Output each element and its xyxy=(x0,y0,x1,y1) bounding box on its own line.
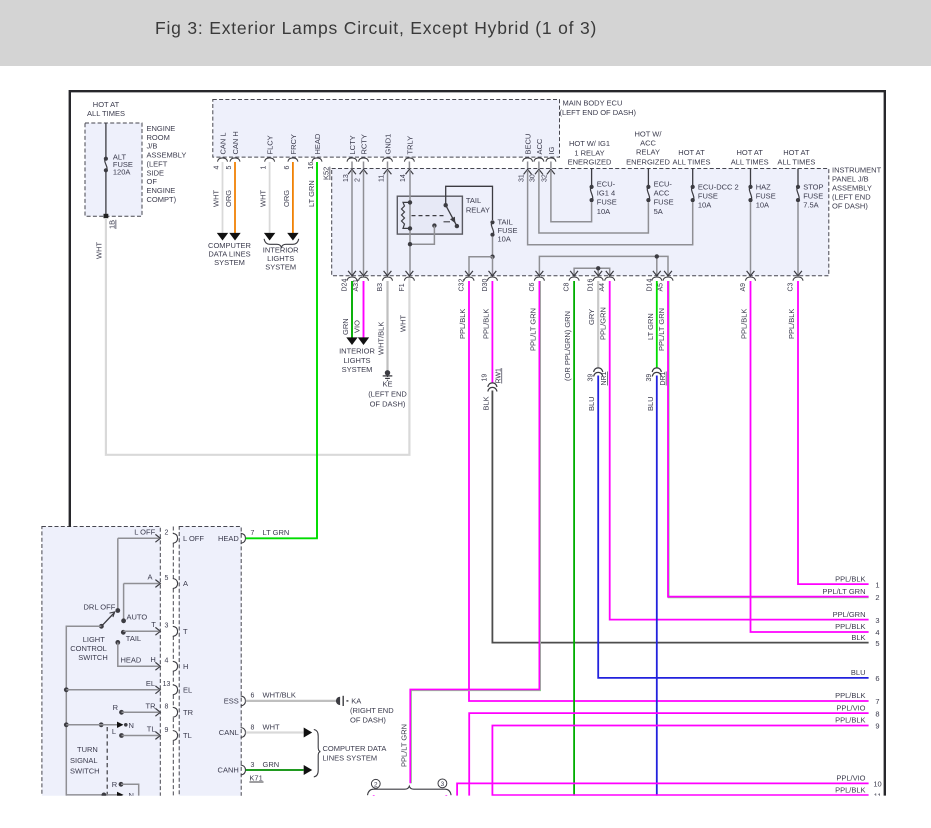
svg-text:H: H xyxy=(150,655,155,664)
svg-text:DR1: DR1 xyxy=(660,371,667,385)
svg-text:ASSEMBLY: ASSEMBLY xyxy=(147,151,187,160)
svg-text:HOT AT: HOT AT xyxy=(736,148,763,157)
svg-text:RELAY: RELAY xyxy=(636,148,660,157)
svg-text:PANEL J/B: PANEL J/B xyxy=(832,175,869,184)
svg-text:D24: D24 xyxy=(342,279,349,292)
svg-text:LIGHTS: LIGHTS xyxy=(343,356,370,365)
svg-text:2: 2 xyxy=(165,530,169,537)
svg-text:WHT/BLK: WHT/BLK xyxy=(377,322,386,355)
svg-text:ALL TIMES: ALL TIMES xyxy=(777,157,815,166)
svg-text:2: 2 xyxy=(374,781,378,788)
svg-text:FUSE: FUSE xyxy=(756,192,776,201)
svg-text:6: 6 xyxy=(251,693,255,700)
svg-text:SYSTEM: SYSTEM xyxy=(342,365,373,374)
svg-text:F1: F1 xyxy=(399,283,406,291)
svg-text:K52: K52 xyxy=(322,167,331,180)
svg-text:STOP: STOP xyxy=(803,183,823,192)
svg-text:ECU-DCC 2: ECU-DCC 2 xyxy=(698,183,739,192)
svg-text:J/B: J/B xyxy=(147,142,158,151)
svg-text:COMPUTER DATA: COMPUTER DATA xyxy=(323,744,387,753)
svg-text:PPL/BLK: PPL/BLK xyxy=(835,785,865,794)
svg-text:FUSE: FUSE xyxy=(654,198,674,207)
svg-text:3: 3 xyxy=(165,623,169,630)
svg-text:HEAD: HEAD xyxy=(121,656,142,665)
svg-text:WHT: WHT xyxy=(95,242,104,259)
svg-text:RW1: RW1 xyxy=(495,368,502,384)
svg-text:6: 6 xyxy=(875,674,879,683)
svg-text:FUSE: FUSE xyxy=(698,192,718,201)
svg-text:MAIN BODY ECU: MAIN BODY ECU xyxy=(563,98,623,107)
svg-text:19: 19 xyxy=(482,374,489,382)
svg-text:TR: TR xyxy=(183,708,194,717)
svg-text:7: 7 xyxy=(875,697,879,706)
svg-text:SYSTEM: SYSTEM xyxy=(265,263,296,272)
svg-text:LIGHT: LIGHT xyxy=(83,635,106,644)
svg-text:NR1: NR1 xyxy=(601,371,608,385)
svg-text:A: A xyxy=(183,579,188,588)
svg-text:T: T xyxy=(151,620,156,629)
svg-text:RELAY: RELAY xyxy=(466,205,490,214)
svg-text:VIO: VIO xyxy=(353,320,362,333)
svg-text:WHT: WHT xyxy=(263,722,280,731)
svg-text:GRN: GRN xyxy=(341,318,350,335)
svg-text:PPL/GRN: PPL/GRN xyxy=(599,307,608,340)
svg-text:TL: TL xyxy=(147,725,156,734)
svg-text:2: 2 xyxy=(354,178,361,182)
svg-text:OF DASH): OF DASH) xyxy=(370,399,406,408)
svg-text:10A: 10A xyxy=(597,207,610,216)
svg-text:BLK: BLK xyxy=(851,633,865,642)
svg-text:10A: 10A xyxy=(698,201,711,210)
svg-text:HOT AT: HOT AT xyxy=(93,100,120,109)
svg-text:1: 1 xyxy=(875,580,879,589)
svg-text:9: 9 xyxy=(875,722,879,731)
svg-text:1B: 1B xyxy=(108,220,117,229)
svg-text:BECU: BECU xyxy=(524,134,533,155)
svg-text:1: 1 xyxy=(261,166,268,170)
svg-text:10A: 10A xyxy=(756,201,769,210)
svg-text:R: R xyxy=(112,780,118,789)
svg-text:SWITCH: SWITCH xyxy=(78,653,108,662)
svg-text:FRCY: FRCY xyxy=(289,134,298,154)
svg-text:13: 13 xyxy=(163,681,171,688)
svg-text:OF DASH): OF DASH) xyxy=(350,716,386,725)
svg-text:ACC: ACC xyxy=(640,139,656,148)
svg-text:PPL/GRN: PPL/GRN xyxy=(833,610,866,619)
svg-text:FLCY: FLCY xyxy=(266,135,275,154)
svg-text:5: 5 xyxy=(226,166,233,170)
svg-text:ESS: ESS xyxy=(224,697,239,706)
svg-text:TAIL: TAIL xyxy=(126,634,141,643)
svg-text:8: 8 xyxy=(875,709,879,718)
svg-text:KE: KE xyxy=(382,379,392,388)
svg-text:C8: C8 xyxy=(564,282,571,291)
svg-text:HOT W/: HOT W/ xyxy=(635,129,663,138)
svg-text:A5: A5 xyxy=(658,283,665,292)
svg-text:ACC: ACC xyxy=(654,189,670,198)
svg-text:WHT: WHT xyxy=(259,190,268,207)
svg-text:ORG: ORG xyxy=(224,190,233,207)
svg-text:3: 3 xyxy=(251,762,255,769)
svg-text:R: R xyxy=(113,703,119,712)
svg-text:HOT AT: HOT AT xyxy=(783,148,810,157)
svg-text:PPL/LT GRN: PPL/LT GRN xyxy=(657,308,666,351)
svg-text:8: 8 xyxy=(251,724,255,731)
svg-text:10A: 10A xyxy=(498,235,511,244)
svg-text:ENGINE: ENGINE xyxy=(147,186,176,195)
svg-text:AUTO: AUTO xyxy=(127,613,148,622)
svg-text:PPL/VIO: PPL/VIO xyxy=(836,774,865,783)
svg-text:7: 7 xyxy=(251,530,255,537)
svg-text:D14: D14 xyxy=(646,279,653,292)
svg-text:2: 2 xyxy=(875,593,879,602)
svg-text:5: 5 xyxy=(875,639,879,648)
svg-text:5: 5 xyxy=(165,575,169,582)
svg-text:PPL/BLK: PPL/BLK xyxy=(835,622,865,631)
svg-text:T: T xyxy=(183,627,188,636)
svg-text:L: L xyxy=(112,727,116,736)
svg-text:LT GRN: LT GRN xyxy=(307,180,316,207)
svg-text:ACC: ACC xyxy=(535,138,544,154)
svg-text:6: 6 xyxy=(284,166,291,170)
svg-text:ALL TIMES: ALL TIMES xyxy=(87,109,125,118)
svg-text:7.5A: 7.5A xyxy=(803,201,818,210)
svg-text:LCTY: LCTY xyxy=(348,135,357,154)
svg-text:OF DASH): OF DASH) xyxy=(832,202,868,211)
svg-text:A31: A31 xyxy=(353,279,360,292)
svg-text:PPL/BLK: PPL/BLK xyxy=(835,716,865,725)
svg-text:L OFF: L OFF xyxy=(183,534,204,543)
svg-text:120A: 120A xyxy=(113,168,131,177)
svg-text:FUSE: FUSE xyxy=(597,198,617,207)
svg-text:ENGINE: ENGINE xyxy=(147,124,176,133)
svg-text:LT GRN: LT GRN xyxy=(646,313,655,340)
svg-text:COMPT): COMPT) xyxy=(147,195,177,204)
svg-text:PPL/LT GRN: PPL/LT GRN xyxy=(528,308,537,351)
svg-text:CAN H: CAN H xyxy=(231,131,240,154)
svg-text:BLU: BLU xyxy=(851,668,866,677)
svg-text:(OR PPL/GRN) GRN: (OR PPL/GRN) GRN xyxy=(563,311,572,381)
svg-text:3: 3 xyxy=(441,781,445,788)
svg-text:BLU: BLU xyxy=(646,396,655,411)
svg-text:RCTY: RCTY xyxy=(360,134,369,154)
svg-text:A4: A4 xyxy=(599,283,606,292)
svg-text:TL: TL xyxy=(183,731,192,740)
svg-text:(RIGHT END: (RIGHT END xyxy=(350,706,394,715)
svg-text:39: 39 xyxy=(646,374,653,382)
svg-text:D16: D16 xyxy=(588,279,595,292)
svg-text:PPL/BLK: PPL/BLK xyxy=(787,309,796,339)
svg-text:A9: A9 xyxy=(740,283,747,292)
svg-text:D30: D30 xyxy=(482,279,489,292)
svg-text:(LEFT END: (LEFT END xyxy=(368,390,407,399)
svg-text:31: 31 xyxy=(518,174,525,182)
svg-text:GND1: GND1 xyxy=(384,134,393,155)
svg-text:INTERIOR: INTERIOR xyxy=(339,346,375,355)
svg-text:16: 16 xyxy=(308,162,315,170)
svg-text:HAZ: HAZ xyxy=(756,183,771,192)
svg-text:EL: EL xyxy=(183,685,192,694)
svg-text:C6: C6 xyxy=(529,282,536,291)
svg-text:TAIL: TAIL xyxy=(466,196,481,205)
svg-text:HEAD: HEAD xyxy=(218,534,239,543)
svg-text:32: 32 xyxy=(542,174,549,182)
svg-text:OF: OF xyxy=(147,177,158,186)
svg-text:PPL/BLK: PPL/BLK xyxy=(835,691,865,700)
svg-text:C32: C32 xyxy=(459,279,466,292)
svg-text:INSTRUMENT: INSTRUMENT xyxy=(832,166,882,175)
svg-text:GRN: GRN xyxy=(263,760,280,769)
svg-text:CANL: CANL xyxy=(219,728,239,737)
svg-text:PPL/BLK: PPL/BLK xyxy=(835,574,865,583)
svg-text:HOT AT: HOT AT xyxy=(678,148,705,157)
svg-text:CAN L: CAN L xyxy=(219,132,228,154)
svg-text:ENERGIZED: ENERGIZED xyxy=(568,158,612,167)
svg-text:PPL/LT GRN: PPL/LT GRN xyxy=(399,724,408,767)
svg-text:5A: 5A xyxy=(654,207,663,216)
svg-text:H: H xyxy=(183,662,188,671)
svg-text:ASSEMBLY: ASSEMBLY xyxy=(832,184,872,193)
svg-text:SYSTEM: SYSTEM xyxy=(214,258,245,267)
svg-text:(LEFT: (LEFT xyxy=(147,159,168,168)
svg-text:4: 4 xyxy=(214,166,221,170)
svg-text:4: 4 xyxy=(165,658,169,665)
svg-text:39: 39 xyxy=(587,374,594,382)
svg-text:10: 10 xyxy=(873,780,881,789)
svg-text:8: 8 xyxy=(165,704,169,711)
svg-text:HOT W/ IG1: HOT W/ IG1 xyxy=(569,139,610,148)
svg-text:PPL/LT GRN: PPL/LT GRN xyxy=(822,587,865,596)
svg-text:TRLY: TRLY xyxy=(405,136,414,155)
svg-text:LINES SYSTEM: LINES SYSTEM xyxy=(323,753,378,762)
svg-text:EL: EL xyxy=(146,679,155,688)
svg-text:30: 30 xyxy=(530,174,537,182)
svg-text:11: 11 xyxy=(378,175,385,182)
svg-text:K71: K71 xyxy=(249,774,262,783)
svg-text:WHT: WHT xyxy=(399,315,408,332)
svg-text:KA: KA xyxy=(351,696,361,705)
svg-text:WHT/BLK: WHT/BLK xyxy=(263,691,296,700)
svg-text:ORG: ORG xyxy=(282,190,291,207)
svg-text:SWITCH: SWITCH xyxy=(70,766,100,775)
svg-text:HEAD: HEAD xyxy=(313,133,322,154)
svg-text:CANH: CANH xyxy=(218,766,239,775)
svg-text:SIDE: SIDE xyxy=(147,168,165,177)
svg-text:DRL OFF: DRL OFF xyxy=(84,603,116,612)
svg-text:4: 4 xyxy=(875,628,879,637)
svg-text:(LEFT END: (LEFT END xyxy=(832,193,871,202)
svg-text:SIGNAL: SIGNAL xyxy=(70,756,98,765)
svg-text:CONTROL: CONTROL xyxy=(70,644,107,653)
svg-text:1 RELAY: 1 RELAY xyxy=(574,148,604,157)
svg-text:PPL/VIO: PPL/VIO xyxy=(836,703,865,712)
svg-text:IG: IG xyxy=(547,146,556,154)
svg-text:14: 14 xyxy=(400,174,407,182)
svg-text:LT GRN: LT GRN xyxy=(263,528,290,537)
svg-text:TURN: TURN xyxy=(77,745,98,754)
svg-text:IG1 4: IG1 4 xyxy=(597,189,615,198)
svg-text:WHT: WHT xyxy=(212,190,221,207)
svg-text:BLU: BLU xyxy=(587,396,596,411)
svg-text:N: N xyxy=(129,721,134,730)
svg-text:ROOM: ROOM xyxy=(147,133,170,142)
svg-text:PPL/BLK: PPL/BLK xyxy=(458,309,467,339)
svg-text:3: 3 xyxy=(875,616,879,625)
svg-text:Fig 3: Exterior Lamps Circuit,: Fig 3: Exterior Lamps Circuit, Except Hy… xyxy=(155,18,597,38)
svg-text:FUSE: FUSE xyxy=(803,192,823,201)
svg-text:9: 9 xyxy=(165,727,169,734)
svg-text:TR: TR xyxy=(146,701,157,710)
svg-text:ALL TIMES: ALL TIMES xyxy=(731,157,769,166)
svg-text:ECU-: ECU- xyxy=(597,180,616,189)
svg-text:PPL/BLK: PPL/BLK xyxy=(481,309,490,339)
svg-text:BLK: BLK xyxy=(481,396,490,410)
svg-text:C3: C3 xyxy=(788,282,795,291)
svg-text:L OFF: L OFF xyxy=(134,527,155,536)
svg-text:B3: B3 xyxy=(377,283,384,292)
svg-text:GRY: GRY xyxy=(587,309,596,325)
svg-text:ENERGIZED: ENERGIZED xyxy=(626,158,670,167)
svg-text:13: 13 xyxy=(343,174,350,182)
svg-text:ALL TIMES: ALL TIMES xyxy=(673,157,711,166)
svg-text:A: A xyxy=(147,573,152,582)
svg-text:(LEFT END OF DASH): (LEFT END OF DASH) xyxy=(560,108,637,117)
svg-text:ECU-: ECU- xyxy=(654,180,673,189)
svg-text:PPL/BLK: PPL/BLK xyxy=(740,309,749,339)
